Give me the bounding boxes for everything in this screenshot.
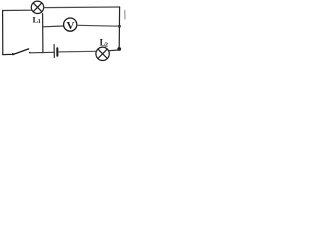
label V [67, 20, 75, 32]
wire bottom-left horizontal [3, 53, 12, 55]
switch S right terminal [29, 52, 31, 54]
wire battery to L2 [58, 50, 96, 53]
node junction voltmeter-right [118, 25, 121, 28]
wire voltmeter left [43, 25, 64, 28]
voltmeter V [64, 18, 77, 31]
wire middle vertical [42, 14, 44, 53]
wire top horizontal to right [44, 6, 120, 9]
svg-text:V: V [67, 20, 75, 32]
label L2 [100, 37, 108, 48]
wire left vertical [2, 11, 4, 55]
wire L2 to right vertical [109, 49, 119, 52]
switch S pivot terminal [12, 53, 14, 55]
right edge mark [124, 11, 126, 20]
battery long plate [53, 45, 55, 58]
battery short plate [56, 48, 58, 56]
node junction L2-right [117, 47, 121, 51]
lamp L1 [31, 1, 43, 13]
label L1 [33, 14, 41, 25]
wire top-left horizontal [3, 9, 32, 11]
lamp L2 [96, 47, 109, 60]
svg-text:2: 2 [105, 41, 108, 48]
svg-text:1: 1 [38, 19, 41, 25]
wire switch to battery [30, 51, 53, 54]
wire voltmeter right [77, 24, 119, 27]
wire right vertical [118, 7, 120, 50]
switch S blade [13, 49, 29, 55]
